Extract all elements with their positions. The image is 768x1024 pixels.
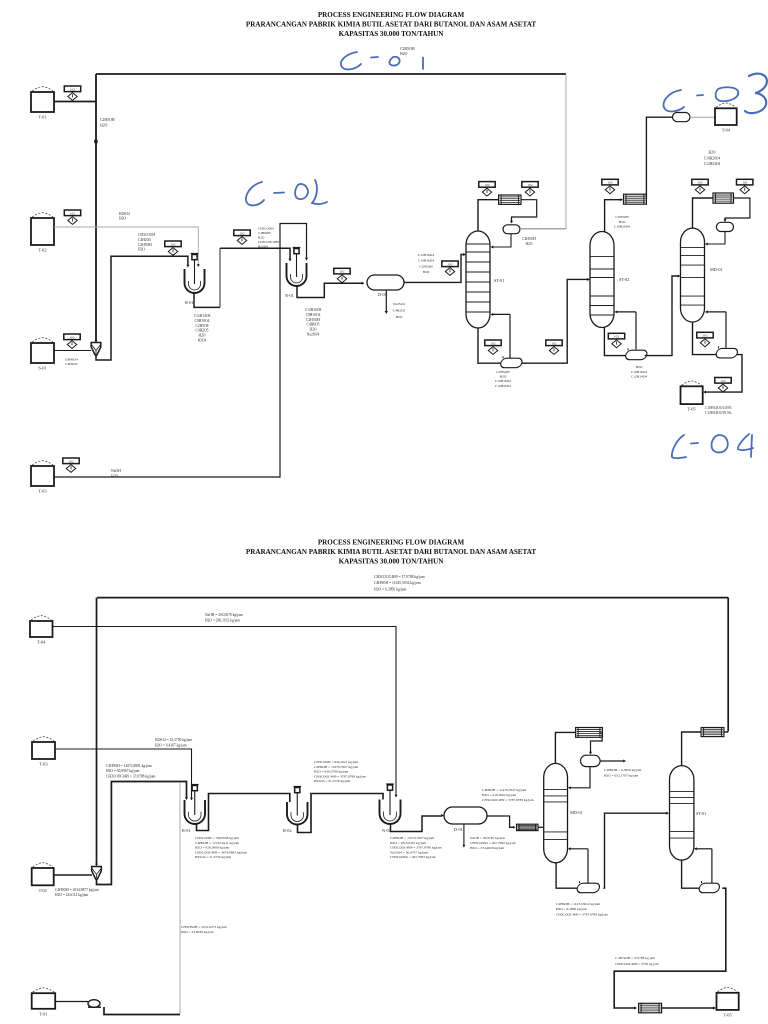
svg-text:102: 102 — [703, 334, 708, 338]
svg-text:Na2SO4: Na2SO4 — [307, 333, 320, 337]
svg-text:C12H24O4: C12H24O4 — [704, 162, 721, 166]
svg-text:H2O: H2O — [526, 242, 533, 246]
svg-text:C2H5OH: C2H5OH — [615, 215, 629, 219]
svg-text:N-01: N-01 — [382, 828, 391, 833]
svg-text:KAPASITAS 30.000 TON/TAHUN: KAPASITAS 30.000 TON/TAHUN — [339, 30, 445, 38]
svg-text:H2O: H2O — [400, 52, 408, 56]
svg-text:H2O: H2O — [636, 365, 643, 369]
svg-text:N-01: N-01 — [285, 293, 294, 298]
svg-text:H2O: H2O — [310, 328, 317, 332]
svg-text:ST-02: ST-02 — [619, 277, 629, 282]
svg-text:PRARANCANGAN PABRIK KIMIA BUTI: PRARANCANGAN PABRIK KIMIA BUTIL ASETAT D… — [246, 21, 536, 29]
svg-text:CH3COOC4H9 = 3750 kg jam: CH3COOC4H9 = 3750 kg jam — [615, 962, 659, 966]
svg-text:C2H5O8: C2H5O8 — [196, 324, 209, 328]
svg-text:MD-01: MD-01 — [570, 810, 583, 815]
svg-text:C4H6O5: C4H6O5 — [307, 323, 320, 327]
svg-text:C10H20O4: C10H20O4 — [614, 225, 630, 229]
svg-text:102: 102 — [240, 231, 245, 235]
svg-text:T-03: T-03 — [38, 489, 47, 494]
svg-text:PRARANCANGAN PABRIK KIMIA BUTI: PRARANCANGAN PABRIK KIMIA BUTIL ASETAT D… — [246, 548, 536, 556]
svg-text:C4H2O5: C4H2O5 — [196, 329, 209, 333]
svg-text:C9H10O4: C9H10O4 — [195, 319, 210, 323]
svg-text:C2H5OH: C2H5OH — [400, 47, 415, 51]
svg-text:102: 102 — [171, 242, 176, 246]
svg-text:ST-01: ST-01 — [494, 278, 504, 283]
svg-text:C9H10O4: C9H10O4 — [306, 313, 321, 317]
svg-text:T-01: T-01 — [39, 1011, 47, 1016]
svg-text:MD-01: MD-01 — [710, 267, 723, 272]
svg-text:R3O4: R3O4 — [198, 339, 207, 343]
svg-text:NaOH: NaOH — [111, 469, 121, 473]
svg-text:H2O: H2O — [500, 375, 507, 379]
svg-text:102: 102 — [698, 181, 703, 185]
svg-text:CH3COOH: CH3COOH — [138, 233, 155, 237]
svg-text:102: 102 — [70, 87, 75, 91]
svg-text:102: 102 — [491, 341, 496, 345]
svg-text:C4H9OH: C4H9OH — [258, 231, 271, 235]
svg-text:H2O: H2O — [100, 124, 108, 128]
svg-text:102: 102 — [485, 183, 490, 187]
svg-text:C10H16O4: C10H16O4 — [418, 259, 434, 263]
svg-text:C2H5OH: C2H5OH — [138, 243, 152, 247]
svg-text:ST-01: ST-01 — [696, 811, 706, 816]
svg-text:R-01: R-01 — [185, 300, 194, 305]
svg-text:C10H20O4: C10H20O4 — [704, 156, 721, 160]
svg-text:102: 102 — [614, 335, 619, 339]
svg-text:H2O: H2O — [709, 151, 716, 155]
svg-text:T-01: T-01 — [38, 115, 46, 120]
svg-text:102: 102 — [528, 183, 533, 187]
svg-text:R-01: R-01 — [182, 828, 191, 833]
svg-text:102: 102 — [70, 335, 75, 339]
svg-text:T-02: T-02 — [39, 888, 47, 893]
svg-text:T-04: T-04 — [722, 128, 731, 133]
svg-text:C12H20O4: C12H20O4 — [495, 384, 511, 388]
svg-text:C2H5OH: C2H5OH — [100, 118, 115, 122]
svg-text:R-02: R-02 — [283, 828, 292, 833]
svg-text:C10H16O4: C10H16O4 — [495, 379, 511, 383]
svg-text:H2O: H2O — [119, 217, 126, 221]
svg-text:102: 102 — [721, 379, 726, 383]
svg-text:C8H6O4: C8H6O4 — [65, 358, 78, 362]
svg-text:T-04: T-04 — [37, 640, 46, 645]
svg-text:102: 102 — [340, 270, 345, 274]
svg-text:D-01: D-01 — [378, 292, 387, 297]
svg-text:102: 102 — [552, 341, 557, 345]
svg-text:H2O: H2O — [258, 236, 265, 240]
svg-text:102: 102 — [608, 181, 613, 185]
svg-text:102: 102 — [742, 181, 747, 185]
svg-text:C12H16O8: C12H16O8 — [305, 308, 322, 312]
svg-text:C12H16O4: C12H16O4 — [418, 253, 434, 257]
svg-text:H2O: H2O — [111, 475, 119, 479]
svg-text:PROCESS ENGINEERING FLOW DIAGR: PROCESS ENGINEERING FLOW DIAGRAM — [318, 539, 465, 547]
svg-text:C2H5OH: C2H5OH — [496, 370, 510, 374]
svg-text:H2SO4: H2SO4 — [119, 212, 130, 216]
svg-text:C10H16O4: C10H16O4 — [631, 370, 647, 374]
svg-text:C2H5OH: C2H5OH — [522, 237, 536, 241]
svg-text:H2O: H2O — [619, 220, 626, 224]
svg-text:S-01: S-01 — [38, 366, 46, 371]
svg-text:CH3COOH: CH3COOH — [258, 227, 274, 231]
svg-text:D-01: D-01 — [454, 827, 463, 832]
svg-text:C4H2O5: C4H2O5 — [138, 238, 151, 242]
svg-text:KAPASITAS 30.000 TON/TAHUN: KAPASITAS 30.000 TON/TAHUN — [339, 558, 445, 566]
svg-text:H2SO4: H2SO4 — [258, 245, 268, 249]
svg-text:H2O: H2O — [396, 315, 403, 319]
svg-text:C4H2O5: C4H2O5 — [393, 308, 406, 312]
svg-text:102: 102 — [70, 211, 75, 215]
svg-text:C2H5OH: C2H5OH — [419, 264, 433, 268]
svg-text:102: 102 — [69, 459, 74, 463]
svg-text:C12H14O8: C12H14O8 — [194, 314, 211, 318]
svg-text:H2O: H2O — [138, 248, 145, 252]
svg-text:H2O: H2O — [423, 270, 430, 274]
svg-text:T-05: T-05 — [688, 407, 697, 412]
svg-text:H2O: H2O — [199, 334, 206, 338]
svg-text:Na2SO4: Na2SO4 — [393, 302, 405, 306]
svg-text:C 4H 9OH = 374788 kg jam: C 4H 9OH = 374788 kg jam — [615, 956, 655, 960]
svg-text:C2H5OH: C2H5OH — [306, 318, 320, 322]
svg-text:T-05: T-05 — [724, 1012, 733, 1017]
svg-text:C12H14O4: C12H14O4 — [631, 375, 647, 379]
svg-text:C4H2O5: C4H2O5 — [65, 362, 78, 366]
svg-text:T-03: T-03 — [39, 762, 48, 767]
svg-text:102: 102 — [448, 262, 453, 266]
svg-text:CH3COOC4H9: CH3COOC4H9 — [258, 240, 279, 244]
svg-text:T-02: T-02 — [38, 248, 46, 253]
svg-text:PROCESS ENGINEERING FLOW DIAGR: PROCESS ENGINEERING FLOW DIAGRAM — [318, 11, 465, 19]
